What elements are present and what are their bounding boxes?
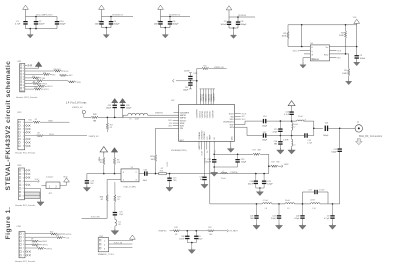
junction group2 bbox=[106, 27, 108, 29]
junction U1 rail bbox=[301, 24, 303, 26]
inductor L5 shunt bbox=[283, 136, 295, 149]
svg-text:4: 4 bbox=[23, 181, 24, 183]
resistor R34 row7 bbox=[25, 82, 47, 86]
svg-text:VDDRFDIG: VDDRFDIG bbox=[201, 130, 203, 140]
svg-text:GPIO2: GPIO2 bbox=[47, 86, 53, 88]
wire U1 pin SDI stub bbox=[330, 58, 341, 60]
ground C21 bbox=[201, 183, 208, 189]
power flag group4 bbox=[226, 6, 232, 17]
svg-text:SDO_E: SDO_E bbox=[293, 50, 300, 52]
svg-text:TBD: TBD bbox=[173, 180, 177, 182]
svg-text:R26: R26 bbox=[93, 114, 96, 116]
svg-text:7: 7 bbox=[23, 192, 24, 194]
resistor R12 CN4 row4 bbox=[25, 244, 48, 247]
svg-text:CN4: CN4 bbox=[17, 226, 22, 228]
svg-text:MISO: MISO bbox=[48, 121, 53, 123]
svg-text:GPIO1: GPIO1 bbox=[43, 89, 49, 91]
svg-text:100pF: 100pF bbox=[198, 238, 204, 240]
svg-text:COMP1A: COMP1A bbox=[230, 171, 238, 174]
resistor R11 CN2 row5 bbox=[25, 133, 99, 139]
svg-text:SDI: SDI bbox=[52, 74, 55, 76]
svg-text:STEVAL-FKI433V2 circuit schema: STEVAL-FKI433V2 circuit schematic bbox=[5, 61, 12, 191]
svg-text:R19: R19 bbox=[271, 162, 274, 164]
svg-text:PAMP: PAMP bbox=[209, 134, 212, 140]
svg-text:100K: 100K bbox=[282, 36, 287, 38]
wire U2 left pin4 stub bbox=[168, 120, 178, 122]
resistor R24 bbox=[159, 168, 166, 175]
svg-text:L5: L5 bbox=[293, 144, 295, 146]
capacitor C11 bbox=[184, 70, 197, 79]
connector J1 SMA bbox=[355, 122, 362, 132]
ground CN3 bbox=[37, 200, 44, 206]
wire CN3 pin6 to ground bus bbox=[25, 187, 41, 189]
wire CN3 pin1 no-connect bbox=[25, 169, 31, 171]
wire CN4 pin6 no-connect bbox=[25, 251, 31, 253]
svg-text:100nF: 100nF bbox=[184, 70, 190, 72]
svg-text:NM: NM bbox=[250, 218, 253, 220]
ground C24 C25 bbox=[256, 184, 264, 196]
wire TCXO output rail bbox=[148, 173, 269, 175]
resistor R20 bbox=[207, 227, 238, 236]
resistor R30 row3 bbox=[25, 69, 69, 73]
svg-text:100pF: 100pF bbox=[331, 151, 337, 153]
capacitor C13 bbox=[284, 107, 294, 121]
wire U2 bottom pin 6 bbox=[213, 141, 215, 154]
capacitor C18 shunt bbox=[274, 136, 283, 149]
svg-text:10: 10 bbox=[22, 91, 24, 93]
svg-text:SDI: SDI bbox=[337, 58, 341, 60]
resistor R36 row9 bbox=[25, 87, 49, 91]
svg-text:100pF: 100pF bbox=[114, 24, 121, 26]
connector CN5 header bbox=[98, 236, 114, 256]
svg-text:R20: R20 bbox=[208, 227, 211, 229]
power flag TCXO supply A bbox=[98, 147, 107, 162]
svg-text:CN3: CN3 bbox=[17, 165, 22, 167]
wire U2 top pin 4 bbox=[205, 89, 208, 105]
power flag JP1 VDD bbox=[60, 177, 69, 186]
ground C34 bbox=[83, 186, 90, 192]
svg-text:6: 6 bbox=[23, 251, 24, 253]
capacitor C3 bbox=[95, 17, 104, 26]
svg-text:100pF: 100pF bbox=[126, 107, 132, 109]
svg-text:C11: C11 bbox=[193, 73, 196, 75]
wire R17 corner down bbox=[260, 154, 269, 173]
connector CN1 header bbox=[16, 61, 38, 99]
svg-text:100nF: 100nF bbox=[248, 184, 254, 186]
svg-text:Header 8X1_Female: Header 8X1_Female bbox=[15, 204, 36, 207]
figure title vertical blue text bbox=[5, 61, 12, 240]
svg-text:Header 8X1_Female: Header 8X1_Female bbox=[15, 152, 36, 155]
power flag CN1 VDD bbox=[25, 62, 42, 69]
wire CN2 pin6 no-connect bbox=[25, 138, 31, 140]
resistor R3 bbox=[282, 25, 290, 47]
capacitor C37 series vertical bbox=[331, 148, 341, 153]
svg-text:5: 5 bbox=[23, 248, 24, 250]
power flag C13 bbox=[288, 101, 295, 108]
capacitor C28 shunt bbox=[294, 203, 304, 224]
svg-text:C29: C29 bbox=[308, 189, 311, 191]
svg-text:4: 4 bbox=[23, 244, 24, 246]
svg-text:XTAL_50 MHz: XTAL_50 MHz bbox=[123, 185, 136, 188]
wire U2 bottom pin 4 bbox=[206, 141, 208, 149]
pin names U2 left column inside bbox=[180, 112, 190, 130]
ground C36 C31 bbox=[187, 239, 196, 253]
svg-text:3: 3 bbox=[23, 241, 24, 243]
svg-text:VSMPS_48: VSMPS_48 bbox=[89, 136, 99, 138]
svg-text:27nH: 27nH bbox=[221, 178, 226, 180]
ground C19 bbox=[166, 186, 173, 192]
wire CN2 pin2 no-connect bbox=[25, 125, 31, 127]
connector CN4 header bbox=[15, 226, 36, 263]
wire CN3 pin2 no-connect bbox=[25, 173, 31, 175]
svg-text:7: 7 bbox=[23, 142, 24, 144]
svg-text:R24: R24 bbox=[160, 171, 163, 173]
power flag C33 bbox=[119, 98, 125, 104]
wire L6 to U2 SMPS1 bbox=[148, 114, 179, 116]
capacitor C32 bbox=[106, 105, 117, 119]
svg-text:L6: L6 bbox=[130, 119, 132, 121]
resistor R32 row5 bbox=[25, 76, 46, 80]
resistor R28 bbox=[100, 194, 108, 218]
wire U2 left pin1 stub bbox=[174, 112, 179, 114]
power flag group3 bbox=[158, 5, 164, 16]
svg-text:VDDDIG: VDDDIG bbox=[238, 15, 246, 17]
svg-text:VDDPATX: VDDPATX bbox=[203, 131, 206, 140]
svg-text:8: 8 bbox=[23, 195, 24, 197]
svg-text:100pF: 100pF bbox=[241, 24, 248, 26]
ground C27 bbox=[275, 224, 282, 230]
svg-text:MOSI: MOSI bbox=[49, 134, 54, 136]
svg-text:3: 3 bbox=[23, 129, 24, 131]
wire RF vertical feed bbox=[339, 128, 341, 148]
resistor R4 bbox=[339, 25, 347, 54]
wire U2 right pin2 SDI bbox=[235, 116, 245, 118]
wire U2 bottom pin 1 bbox=[198, 141, 200, 147]
svg-text:100nF: 100nF bbox=[39, 24, 46, 26]
svg-text:1: 1 bbox=[23, 122, 24, 124]
svg-text:L7: L7 bbox=[222, 171, 224, 173]
connector CN3 header bbox=[15, 165, 36, 207]
ground C26 bbox=[253, 224, 260, 230]
connector CN2 header bbox=[15, 112, 36, 154]
svg-text:VDDSMPS: VDDSMPS bbox=[197, 109, 199, 119]
wire group3 rail bbox=[161, 16, 191, 18]
wire group2 rail bbox=[102, 16, 134, 18]
svg-text:SDN: SDN bbox=[180, 126, 185, 128]
wire U2 top pin 6 bbox=[210, 89, 213, 105]
capacitor C1 bbox=[15, 17, 28, 29]
resistor R31 row4 bbox=[25, 72, 73, 77]
ground group1 bbox=[27, 29, 33, 38]
svg-text:VDDFEM: VDDFEM bbox=[212, 110, 214, 118]
svg-text:R7: R7 bbox=[37, 79, 39, 81]
wire SMPS rail to U2 SMPS2 bbox=[123, 116, 179, 118]
wire group2 bottom join bbox=[102, 25, 112, 28]
wire CN3 ground bus bbox=[40, 188, 42, 201]
svg-text:VBAT: VBAT bbox=[198, 146, 201, 150]
svg-text:R15: R15 bbox=[56, 235, 59, 237]
node RF output junction bbox=[313, 128, 315, 130]
svg-text:VDDRX(XO): VDDRX(XO) bbox=[223, 122, 234, 124]
resistor R17 bbox=[253, 150, 262, 156]
svg-text:120pF: 120pF bbox=[241, 162, 247, 164]
svg-text:7: 7 bbox=[23, 255, 24, 257]
svg-text:100nF: 100nF bbox=[360, 58, 366, 60]
svg-text:SMA_RF_Connectors: SMA_RF_Connectors bbox=[359, 135, 383, 138]
svg-text:8.2pF: 8.2pF bbox=[294, 218, 300, 220]
svg-text:4.7uF: 4.7uF bbox=[284, 114, 290, 116]
wire U2 bottom pin 5 PA out bbox=[209, 141, 211, 204]
svg-text:ENABLE_TCXO: ENABLE_TCXO bbox=[98, 253, 114, 256]
wire RX lower rail bbox=[266, 135, 304, 137]
svg-text:4: 4 bbox=[23, 132, 24, 134]
wire group4 bottom join bbox=[229, 25, 238, 28]
svg-text:100K: 100K bbox=[339, 35, 344, 37]
svg-text:4.7pF: 4.7pF bbox=[307, 143, 313, 145]
capacitor C19 bbox=[167, 173, 177, 187]
svg-text:R18: R18 bbox=[174, 227, 177, 229]
svg-text:Figure 1.: Figure 1. bbox=[5, 207, 12, 240]
ground R5 bbox=[346, 80, 352, 85]
svg-text:4.7 pF: 4.7 pF bbox=[324, 218, 330, 220]
capacitor C34 rail left bbox=[85, 180, 94, 186]
capacitor C10 bbox=[55, 17, 66, 29]
resistor R14 CN4 row3 bbox=[25, 239, 47, 244]
svg-text:6: 6 bbox=[23, 188, 24, 190]
pin names U2 right column inside bbox=[223, 114, 234, 130]
svg-text:27nH: 27nH bbox=[298, 116, 303, 118]
svg-text:L8: L8 bbox=[265, 208, 267, 210]
power flag TCXO supply B bbox=[111, 148, 117, 154]
junction group3 bbox=[165, 27, 167, 29]
node C11 C12 midpoint bbox=[172, 79, 197, 82]
svg-text:RX_PATH: RX_PATH bbox=[230, 230, 239, 233]
inductor L11 bbox=[115, 216, 121, 230]
resistor R26 bbox=[91, 114, 123, 123]
wire CN3 pin5 no-connect bbox=[25, 184, 31, 186]
wire TP1 to rail bbox=[84, 114, 91, 118]
svg-text:VDDANA(SYNTH): VDDANA(SYNTH) bbox=[171, 149, 187, 152]
resistor R33 row6 bbox=[25, 79, 81, 84]
svg-text:3: 3 bbox=[23, 177, 24, 179]
ground U1 Vss bbox=[300, 58, 310, 68]
resistor R25 bbox=[99, 154, 105, 175]
capacitor C2 bbox=[34, 17, 45, 29]
resistor R29 bbox=[114, 182, 121, 202]
svg-text:100pF: 100pF bbox=[183, 89, 189, 91]
wire RX upper rail bbox=[266, 120, 296, 122]
capacitor C8 bbox=[236, 17, 247, 26]
resistor R21 CN4 row5 bbox=[25, 246, 52, 250]
inductor L10 bbox=[310, 200, 320, 210]
capacitor C24 bbox=[248, 173, 258, 186]
svg-text:8: 8 bbox=[23, 146, 24, 148]
transceiver U2 body bbox=[172, 100, 235, 142]
wire U2 RXN to lower rail bbox=[235, 127, 263, 135]
node SMA grey arrow bbox=[355, 139, 362, 145]
svg-text:SDOUT: SDOUT bbox=[180, 120, 187, 122]
svg-text:30nH: 30nH bbox=[285, 200, 290, 202]
svg-text:VSMPS3: VSMPS3 bbox=[155, 113, 163, 115]
svg-text:SMPS2: SMPS2 bbox=[180, 118, 186, 120]
wire CN2 pin4 no-connect bbox=[25, 131, 31, 133]
svg-text:SDN2: SDN2 bbox=[42, 241, 47, 243]
ground C28 bbox=[299, 224, 306, 230]
capacitor C25 bbox=[262, 173, 274, 186]
svg-text:1.8 pF: 1.8 pF bbox=[319, 189, 325, 191]
capacitor C30 tank bbox=[303, 189, 329, 204]
wire U2 bottom pin 2 bbox=[201, 141, 203, 149]
capacitor C21 VDDPA bbox=[200, 177, 207, 184]
pin names U2 bottom row vertical bbox=[198, 146, 217, 164]
node VSMPS4 label bbox=[158, 231, 173, 233]
svg-text:100nF: 100nF bbox=[106, 107, 112, 109]
wire PA chain segment 1 bbox=[210, 203, 263, 205]
svg-text:5: 5 bbox=[23, 135, 24, 137]
capacitor C23 bbox=[235, 154, 247, 167]
svg-text:R2: R2 bbox=[44, 72, 46, 74]
wire U1 pin2 SDO stub bbox=[293, 50, 311, 52]
inductor L9 bbox=[285, 200, 295, 210]
capacitor C35 series bbox=[139, 169, 148, 181]
wire output to C16 bbox=[314, 127, 323, 129]
wire PA chain segment 3 bbox=[295, 203, 311, 205]
inductor L8 bbox=[262, 200, 272, 210]
capacitor C36 bbox=[179, 230, 189, 240]
svg-text:VDD_SMPS_EXT: VDD_SMPS_EXT bbox=[36, 15, 53, 17]
capacitor C29 shunt bbox=[324, 203, 335, 224]
wire group4 rail bbox=[229, 16, 255, 18]
ground U2 exposed pad bbox=[227, 141, 234, 152]
svg-text:R4: R4 bbox=[33, 76, 35, 78]
wire U1 pin3 stub bbox=[304, 53, 310, 55]
wire U2 top pin 2 bbox=[200, 89, 203, 105]
wire U1 Vcc to rail bbox=[330, 46, 357, 48]
svg-text:L9: L9 bbox=[287, 208, 289, 210]
wire C16 to J1 bbox=[328, 127, 355, 129]
junction group4 bbox=[233, 27, 235, 29]
svg-text:C17: C17 bbox=[263, 132, 266, 134]
node TCXO_EN wire bbox=[82, 216, 108, 218]
capacitor C15 rail to rail bbox=[273, 121, 283, 135]
resistor R18 bbox=[173, 227, 208, 236]
svg-text:2.7nH: 2.7nH bbox=[283, 139, 289, 141]
svg-text:L2: L2 bbox=[293, 127, 295, 129]
ground group4 bbox=[230, 28, 236, 39]
wire U1 pin SCK stub bbox=[330, 50, 342, 52]
svg-text:R16: R16 bbox=[203, 66, 206, 68]
wire U2 top pin 7 bbox=[213, 89, 216, 105]
node DLD net arrow bbox=[25, 179, 40, 183]
svg-text:2.7nH: 2.7nH bbox=[263, 200, 269, 202]
wire upper rail to output corner bbox=[304, 121, 314, 135]
ground C18 bbox=[277, 148, 284, 154]
capacitor C7 bbox=[220, 17, 231, 26]
capacitor C4 bbox=[109, 17, 120, 26]
svg-text:100nF: 100nF bbox=[95, 24, 102, 26]
svg-text:2: 2 bbox=[23, 237, 24, 239]
svg-text:R10: R10 bbox=[29, 120, 32, 122]
svg-text:100pF: 100pF bbox=[262, 125, 268, 127]
svg-text:100K: 100K bbox=[342, 73, 347, 75]
inductor L3 bbox=[297, 116, 306, 121]
ground L11 bbox=[111, 229, 119, 235]
svg-text:10uH: 10uH bbox=[135, 119, 140, 121]
svg-text:100nF: 100nF bbox=[206, 162, 212, 164]
capacitor C20 bbox=[113, 202, 124, 216]
resistor R27 stub bbox=[106, 117, 113, 132]
svg-text:VDDFEM: VDDFEM bbox=[214, 93, 216, 101]
jumper JP1 bbox=[42, 176, 61, 196]
junction group1 bbox=[35, 16, 37, 18]
svg-text:CN2: CN2 bbox=[17, 112, 22, 114]
svg-text:R11: R11 bbox=[38, 84, 41, 86]
resistor R35 row8 bbox=[25, 84, 53, 88]
svg-text:C16: C16 bbox=[325, 123, 328, 125]
wire U2 XIN to crystal bbox=[156, 128, 179, 154]
resistor R6 SMPS filter bbox=[197, 66, 227, 70]
wire CN5 pin2 TCXO_48 bbox=[109, 243, 133, 245]
capacitor C22 bbox=[206, 154, 217, 167]
svg-text:B: B bbox=[312, 47, 313, 49]
wire SMPS rail jog bbox=[123, 115, 128, 117]
wire group1 bottom rail bbox=[26, 28, 58, 30]
wire CN5 pin1 to power bbox=[109, 235, 136, 241]
svg-text:100pF: 100pF bbox=[173, 24, 180, 26]
svg-text:2: 2 bbox=[23, 125, 24, 127]
wire U2 bottom pin 3 to C21 bbox=[204, 141, 206, 176]
wire group3 bottom join bbox=[161, 25, 171, 28]
svg-text:22nH: 22nH bbox=[310, 200, 315, 202]
power flag U1 rail bbox=[353, 17, 360, 25]
svg-text:4.7uF: 4.7uF bbox=[15, 24, 21, 26]
svg-text:1V3: 1V3 bbox=[207, 137, 209, 140]
capacitor C14 bbox=[262, 116, 268, 127]
resistor R13 CN4 row1 bbox=[25, 231, 71, 235]
wire CN5 pin3 bbox=[109, 246, 133, 248]
svg-text:NM: NM bbox=[258, 150, 261, 152]
op-amp U1 (EEPROM M95M040 body) bbox=[310, 43, 329, 61]
wire U2 top pin 5 bbox=[207, 89, 210, 105]
wire U2 right pin3 SDO bbox=[235, 119, 246, 121]
svg-text:5: 5 bbox=[23, 185, 24, 187]
svg-text:RXN: RXN bbox=[230, 127, 235, 129]
svg-text:R13: R13 bbox=[50, 231, 53, 233]
pin names U2 bottom row inside bbox=[198, 130, 216, 140]
test point TP1 bbox=[82, 110, 85, 113]
wire CN1 pin1 no-connect bbox=[25, 64, 32, 66]
crystal Y1 TCXO bbox=[121, 167, 139, 188]
svg-text:R9: R9 bbox=[33, 82, 35, 84]
svg-text:TCXO_48: TCXO_48 bbox=[114, 243, 122, 245]
capacitor C5 bbox=[154, 17, 163, 26]
wire group1 top rail bbox=[26, 16, 58, 18]
svg-text:GPIO1: GPIO1 bbox=[42, 245, 48, 247]
resistor R15 CN4 row2 bbox=[25, 235, 70, 240]
wire U2 left pin6 stub bbox=[168, 125, 178, 127]
capacitor C38 series lower rail bbox=[304, 133, 314, 144]
wire Y1 ground pin bbox=[107, 180, 121, 195]
wire U2 right pin1 SCLK bbox=[235, 114, 247, 116]
capacitor C27 shunt bbox=[271, 203, 281, 224]
svg-text:4.7pF: 4.7pF bbox=[273, 131, 279, 133]
resistor R23 bbox=[150, 154, 156, 173]
wire U1 pin1 feed bbox=[301, 25, 303, 47]
capacitor C17 bbox=[262, 132, 268, 142]
inductor L2 rail to rail bbox=[292, 123, 299, 136]
svg-text:VDD: VDD bbox=[63, 177, 68, 179]
svg-text:1.4 V to 1.8 V max: 1.4 V to 1.8 V max bbox=[66, 102, 87, 105]
